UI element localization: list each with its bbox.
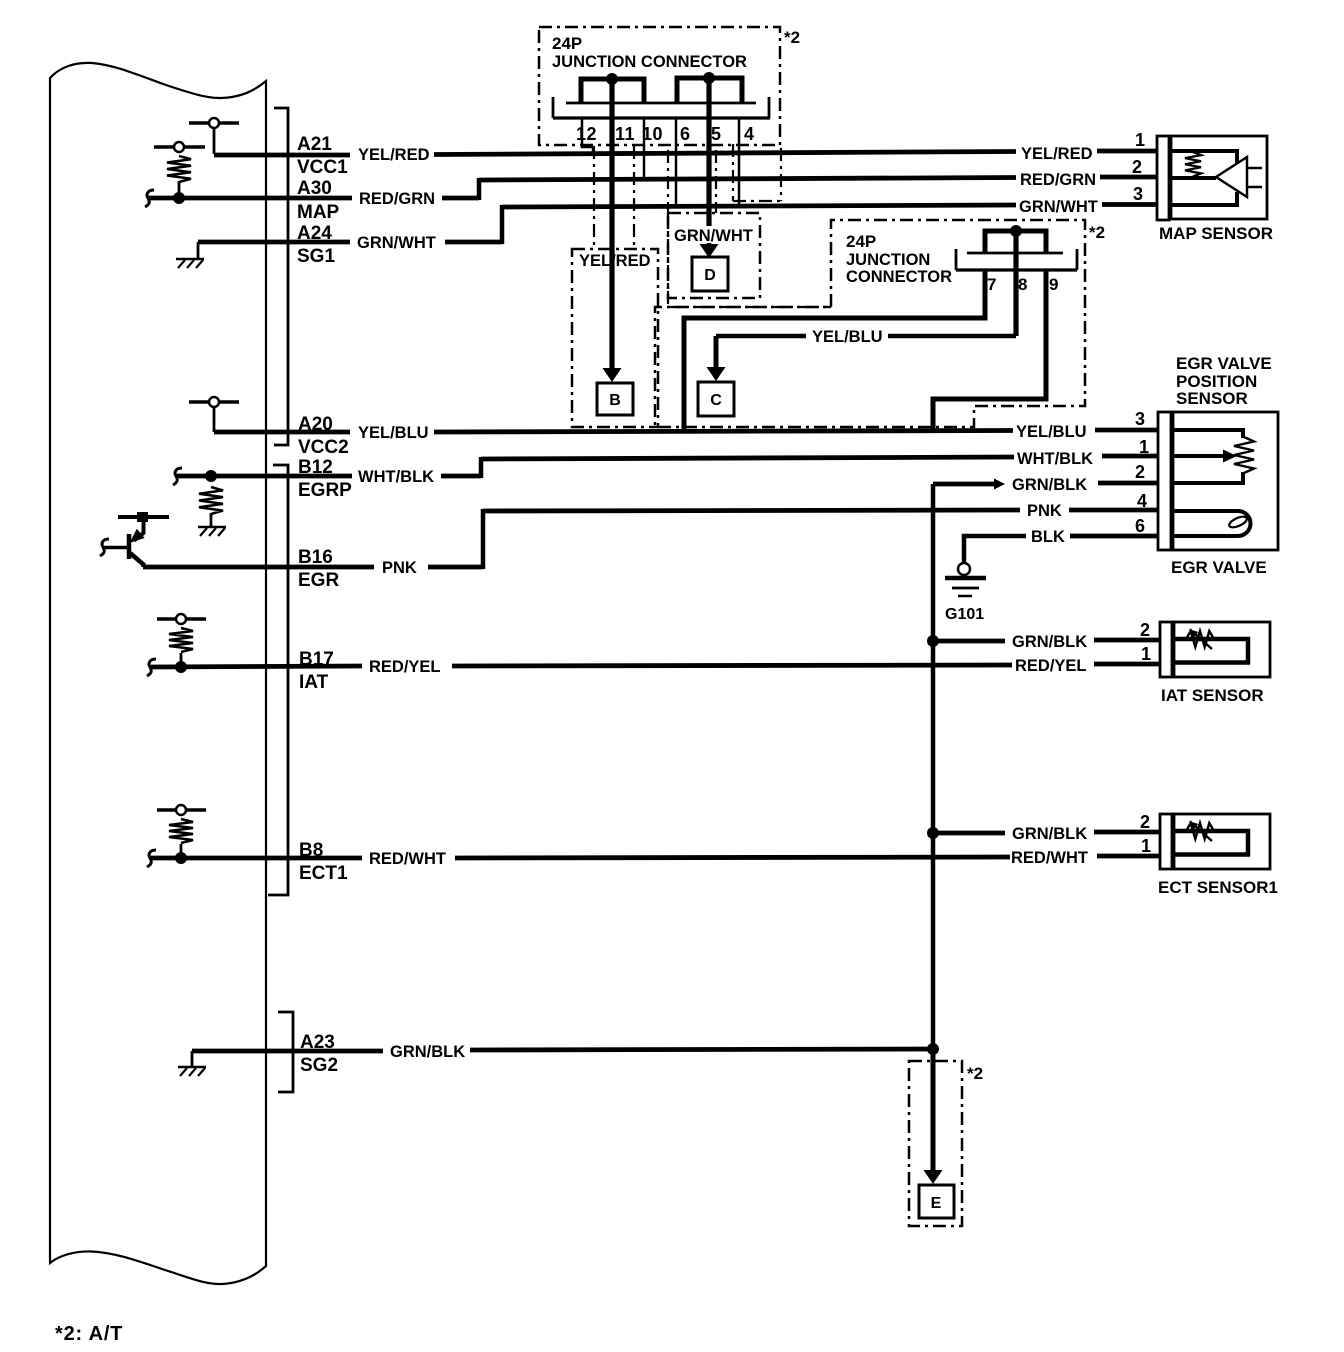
wire resistor to B8 node (180, 844, 183, 858)
harness channel line (pin 4 right) (780, 148, 782, 201)
VCC2 pull-up open circle (209, 397, 219, 407)
svg-text:YEL/RED: YEL/RED (1021, 145, 1093, 163)
svg-text:*2: *2 (1089, 223, 1105, 242)
harness channel line (pin 4 left) (732, 144, 734, 201)
node staple 1 dot (pin 11) (606, 73, 618, 85)
connector 2 body outer bar (956, 268, 1077, 271)
MAP triangle stub lower (1247, 186, 1262, 189)
ECT internal wire and loop (1174, 831, 1248, 855)
svg-text:SG2: SG2 (300, 1055, 338, 1076)
svg-text:GRN/WHT: GRN/WHT (1019, 198, 1098, 216)
svg-text:RED/YEL: RED/YEL (369, 658, 441, 676)
harness channel line (pin 6 left) (667, 150, 669, 213)
transistor Q1 base bar (127, 534, 132, 559)
connector E box (919, 1185, 954, 1218)
B8 wire left hook (147, 850, 156, 867)
svg-text:6: 6 (680, 124, 690, 144)
svg-text:3: 3 (1133, 184, 1143, 204)
svg-text:2: 2 (1132, 157, 1142, 177)
MAP sensor box (1171, 136, 1267, 219)
svg-text:EGR VALVE: EGR VALVE (1171, 558, 1267, 577)
wire pin 11 lead (YEL/RED branch to B) (609, 79, 614, 369)
harness channel line (pin 4 bottom) (733, 200, 781, 202)
svg-text:GRN/BLK: GRN/BLK (1012, 633, 1087, 651)
wire RED/WHT to ECT pin 1 (1097, 854, 1161, 859)
svg-text:EGRP: EGRP (298, 480, 352, 501)
arrow into D (707, 243, 712, 247)
svg-text:1: 1 (1135, 130, 1145, 150)
svg-text:A21: A21 (297, 134, 332, 155)
ECT thermistor arrow (1194, 825, 1212, 841)
svg-text:2: 2 (1135, 462, 1145, 482)
transistor Q1 emitter node square dot (137, 512, 148, 522)
resistor R-B17 (IAT) (169, 628, 193, 652)
wire BLK to EGR pin 6 (1070, 534, 1160, 539)
24P junction connector 1 dash-dot box (539, 27, 780, 145)
svg-text:E: E (931, 1195, 942, 1212)
wire YEL/BLU to EGR pin 3 (1095, 428, 1160, 433)
wire pin 8 lead (YEL/BLU to C) (1013, 231, 1018, 336)
wire RED/GRN to MAP pin 2 (1100, 175, 1159, 180)
VCC2 pull-up terminal bar (189, 400, 239, 403)
arrow into E (924, 1170, 943, 1184)
wire YEL/RED to MAP pin 1 (1097, 149, 1159, 154)
svg-text:RED/WHT: RED/WHT (1011, 849, 1088, 867)
svg-text:8: 8 (1018, 275, 1027, 294)
IAT thermistor arrow (1194, 633, 1212, 649)
wire RED/GRN upper segment (479, 178, 1016, 181)
ground SG1 (A24) (176, 258, 204, 261)
connector 1 body right end (768, 97, 771, 118)
wire GRN/WHT upper segment (502, 205, 1016, 207)
svg-text:24P: 24P (552, 34, 582, 53)
ground G101 mid bar (952, 587, 979, 590)
IAT internal wire and loop (1174, 639, 1248, 663)
EGR pot wiper arrow (1223, 450, 1237, 463)
wire WHT/BLK mid segment (441, 474, 481, 479)
IAT sensor box (1174, 622, 1270, 677)
connector 1 body outer bar (553, 116, 770, 119)
svg-text:PNK: PNK (382, 559, 417, 577)
svg-text:YEL/BLU: YEL/BLU (812, 328, 883, 346)
wire GRN/BLK to ECT pin 2 (1094, 830, 1161, 835)
transistor Q1 collector lead (130, 553, 144, 567)
EGR sensor box (1173, 412, 1278, 550)
wire PNK to EGR pin 4 (1069, 508, 1160, 513)
svg-text:GRN/BLK: GRN/BLK (1012, 825, 1087, 843)
svg-text:EGR: EGR (298, 570, 339, 591)
svg-text:EGR VALVE: EGR VALVE (1176, 354, 1272, 373)
VCC1 pull-up open circle (209, 118, 219, 128)
MAP internal pin3 line (1171, 192, 1237, 205)
B8 terminal bar (157, 808, 206, 811)
wire GRN/BLK to IAT pin 2 (1094, 638, 1161, 643)
svg-text:MAP SENSOR: MAP SENSOR (1159, 224, 1273, 243)
connector C box (698, 382, 734, 416)
connector 2 body inner bar (967, 252, 1063, 255)
24P junction connector 2 dash-dot outline (655, 220, 1085, 427)
wire GRN/BLK EGR segment with arrow (933, 482, 996, 487)
wire YEL/BLU branch right of label (888, 334, 1016, 339)
EGR pot wiper (pin 1) (1173, 454, 1224, 458)
svg-text:SG1: SG1 (297, 246, 335, 267)
resistor R-EGR potentiometer (1234, 437, 1254, 473)
ground G101 top bar (945, 576, 986, 581)
wire VCC2 drop to A20 (213, 407, 216, 432)
EGR pot top line (pin 3) (1173, 430, 1243, 438)
svg-text:7: 7 (987, 275, 996, 294)
wire YEL/BLU mid segment (434, 431, 1013, 433)
svg-text:6: 6 (1135, 516, 1145, 536)
svg-text:GRN/WHT: GRN/WHT (674, 227, 753, 245)
resistor R-MAP (1185, 152, 1201, 177)
node staple 2 dot (pin 5) (703, 72, 715, 84)
ground G101 circle (958, 563, 970, 575)
wire pin 4 lead to GRN/WHT (738, 118, 741, 207)
connector B box (597, 383, 633, 415)
connector 2 body right end (1076, 249, 1079, 270)
node A30 junction dot (173, 192, 185, 204)
ground G101 low bar (958, 595, 972, 598)
wire B16 PNK left segment (143, 565, 374, 570)
svg-text:JUNCTION: JUNCTION (846, 251, 930, 269)
wire YEL/RED mid segment (434, 152, 1016, 155)
connector 2 body left end (955, 249, 958, 270)
svg-text:1: 1 (1141, 644, 1151, 664)
wire GRN/BLK to trunk junction (470, 1049, 935, 1050)
svg-text:WHT/BLK: WHT/BLK (358, 468, 434, 486)
transistor Q1 emitter terminal bar (118, 515, 169, 519)
svg-text:VCC2: VCC2 (298, 437, 349, 458)
wire GRN/WHT riser (500, 205, 505, 244)
connector 1 bridge staple pins 12-10 (581, 79, 644, 104)
wire GRN/BLK vertical trunk (931, 484, 936, 1049)
VCC1 pull-up terminal bar (189, 121, 239, 124)
wire pin 5 lead (GRN/WHT branch to D) (706, 78, 711, 226)
transistor Q1 base lead (104, 546, 127, 550)
wire A30 RED/GRN left segment (149, 196, 352, 201)
wire RED/WHT mid segment (455, 857, 1010, 858)
svg-text:BLK: BLK (1031, 528, 1065, 546)
MAP sensor connector bar (1157, 136, 1169, 220)
node B12 junction dot (205, 470, 217, 482)
harness channel line (pin 11 left) (593, 146, 595, 249)
wire WHT/BLK upper segment (481, 457, 1014, 459)
resistor R-B12 (EGRP) (199, 487, 223, 514)
wire GRN/BLK IAT segment (933, 639, 1005, 644)
harness link line (C channel top) (667, 213, 669, 307)
wire RED/YEL mid segment (452, 665, 1012, 666)
ECU wavy band (left page-break band) (50, 63, 266, 1284)
wire GRN/WHT to MAP pin 3 (1102, 202, 1159, 207)
transistor Q1 emitter arrow (PNP) (130, 529, 145, 543)
wire GRN/WHT mid segment (445, 240, 502, 245)
svg-text:2: 2 (1140, 812, 1150, 832)
svg-text:*2: *2 (967, 1064, 983, 1083)
svg-text:24P: 24P (846, 232, 876, 251)
B17 terminal bar (157, 617, 206, 620)
arrow into C (707, 367, 726, 381)
MAP triangle stub upper (1247, 167, 1262, 170)
A30 terminal bar (154, 145, 205, 148)
wire RED/YEL to IAT pin 1 (1094, 662, 1161, 667)
wire resistor to B17 node (180, 653, 183, 667)
ECU connector bracket A23 (278, 1012, 293, 1092)
svg-text:4: 4 (1137, 491, 1147, 511)
svg-text:2: 2 (1140, 620, 1150, 640)
harness channel line (pin 11 right) (633, 146, 635, 249)
node trunk-ECT junction dot (927, 827, 939, 839)
EGR sensor connector bar (1158, 412, 1171, 550)
svg-text:*2: *2 (784, 28, 800, 47)
svg-text:ECT1: ECT1 (299, 863, 348, 884)
svg-text:12: 12 (576, 124, 597, 144)
svg-text:GRN/BLK: GRN/BLK (1012, 476, 1087, 494)
svg-text:G101: G101 (945, 606, 984, 623)
wire A21 YEL/RED left segment (214, 153, 350, 158)
svg-text:ECT SENSOR1: ECT SENSOR1 (1158, 878, 1278, 897)
op-amp triangle (MAP) (1216, 157, 1247, 197)
wire WHT/BLK to EGR pin 1 (1102, 454, 1160, 459)
MAP internal pin2 line (1171, 176, 1216, 180)
arrow GRN/BLK EGR (994, 479, 1005, 490)
GRN/WHT branch dash-dot box (668, 213, 760, 298)
svg-text:JUNCTION CONNECTOR: JUNCTION CONNECTOR (552, 53, 747, 71)
A30 wire left hook (145, 190, 154, 207)
EGR solenoid loop (pins 4-6) (1173, 511, 1251, 536)
wire YEL/BLU branch left of label (716, 334, 806, 339)
wire pin 6 lead to GRN/WHT (675, 118, 678, 207)
B17 terminal open circle (176, 614, 186, 624)
wire B12 WHT/BLK left segment (177, 474, 352, 479)
svg-text:IAT: IAT (299, 672, 329, 693)
wire A20 YEL/BLU left segment (214, 430, 350, 435)
wire PNK upper segment (483, 510, 1020, 511)
resistor R-B8 (ECT) (169, 819, 193, 843)
wire A23 ground drop (191, 1051, 194, 1067)
node B8 junction dot (175, 852, 187, 864)
ECT sensor box (1174, 814, 1270, 869)
EGR solenoid ellipse (1228, 514, 1249, 529)
wire pin 7 lead (684, 270, 985, 430)
svg-text:5: 5 (711, 124, 721, 144)
connector 1 body inner bar (566, 102, 756, 105)
svg-text:RED/YEL: RED/YEL (1015, 657, 1087, 675)
connector 2 bridge staple pins 7-9 (985, 231, 1046, 253)
node trunk-A23 junction dot (927, 1043, 939, 1055)
svg-text:VCC1: VCC1 (297, 157, 348, 178)
wire resistor to A30 node (178, 181, 181, 198)
wire RED/GRN mid segment (442, 196, 479, 201)
svg-text:B: B (609, 392, 621, 409)
harness channel line (pin 5 right) (715, 150, 717, 213)
wire C arrow drop (714, 336, 719, 369)
ECU connector bracket A (pins A21/A30/A24/A20) (274, 108, 288, 445)
MAP internal pin1 line (1171, 151, 1237, 163)
connector D box (692, 257, 728, 291)
wire WHT/BLK riser (479, 457, 484, 478)
transistor Q1 base lead hook (100, 539, 109, 556)
wire RED/GRN riser (477, 178, 482, 200)
node B17 junction dot (175, 661, 187, 673)
wire resistor to ground B12 (210, 513, 213, 527)
svg-text:IAT SENSOR: IAT SENSOR (1161, 686, 1264, 705)
svg-text:YEL/BLU: YEL/BLU (358, 424, 429, 442)
svg-text:RED/GRN: RED/GRN (1020, 171, 1096, 189)
svg-text:WHT/BLK: WHT/BLK (1017, 450, 1093, 468)
svg-text:11: 11 (615, 124, 635, 144)
resistor R-A30 (MAP input) (167, 156, 191, 182)
ground SG2 (A23) (178, 1066, 206, 1069)
svg-text:SENSOR: SENSOR (1176, 389, 1248, 408)
A30 terminal open circle (174, 142, 184, 152)
svg-text:3: 3 (1135, 409, 1145, 429)
wire PNK riser (481, 509, 486, 569)
svg-text:1: 1 (1141, 836, 1151, 856)
wire GRN/BLK to EGR pin 2 (1098, 481, 1160, 486)
svg-text:GRN/BLK: GRN/BLK (390, 1043, 465, 1061)
wire A24 GRN/WHT left segment (198, 240, 350, 245)
svg-text:4: 4 (744, 124, 754, 144)
node trunk-IAT junction dot (927, 635, 939, 647)
wire pin 9 lead (933, 270, 1046, 430)
B17 wire left hook (147, 659, 156, 676)
arrow into B (603, 368, 622, 382)
svg-text:C: C (710, 392, 722, 409)
connector 1 bridge staple pins 6-4 (677, 78, 742, 104)
svg-text:CONNECTOR: CONNECTOR (846, 268, 952, 286)
ECU connector bracket B (pins B12/B16/B17/B8) (268, 465, 288, 895)
EGR pot bottom line (pin 2) (1173, 472, 1243, 483)
ECT sensor connector bar (1160, 814, 1172, 869)
wire A23 GRN/BLK left segment (192, 1049, 383, 1054)
IAT sensor connector bar (1160, 622, 1172, 677)
resistor R-ECT thermistor (1186, 823, 1214, 839)
wire pin 12 lead to YEL/RED (582, 118, 593, 154)
harness link line (C channel horizontal) (668, 306, 831, 308)
svg-text:D: D (704, 267, 716, 284)
wire B17 RED/YEL left segment (151, 666, 362, 667)
svg-text:YEL/RED: YEL/RED (579, 252, 651, 270)
B8 terminal open circle (176, 805, 186, 815)
wire pin 10 lead to RED/GRN (643, 118, 646, 180)
svg-text:9: 9 (1049, 275, 1058, 294)
wire BLK from ground riser (964, 536, 1026, 562)
transistor Q1 emitter lead (134, 520, 144, 541)
svg-text:PNK: PNK (1027, 502, 1062, 520)
wire A24 ground drop (197, 242, 200, 259)
ground (B12) (198, 526, 226, 529)
svg-text:*2: A/T: *2: A/T (55, 1323, 123, 1345)
svg-text:1: 1 (1139, 437, 1149, 457)
wire VCC1 drop to A21 (213, 128, 216, 154)
connector 1 body left end (552, 97, 555, 118)
svg-text:GRN/WHT: GRN/WHT (357, 234, 436, 252)
YEL/RED branch dash-dot box (572, 249, 658, 427)
wire PNK mid segment (428, 565, 483, 570)
wire GRN/BLK ECT segment (933, 831, 1005, 836)
svg-text:YEL/RED: YEL/RED (358, 146, 430, 164)
svg-text:RED/WHT: RED/WHT (369, 850, 446, 868)
node staple dot (pin 8) (1010, 225, 1022, 237)
wire GRN/BLK drop to E (931, 1049, 936, 1170)
svg-text:MAP: MAP (297, 202, 340, 223)
wire B8 RED/WHT left segment (151, 856, 362, 861)
resistor R-IAT thermistor (1186, 631, 1214, 647)
E branch dash-dot box (909, 1061, 962, 1226)
svg-text:RED/GRN: RED/GRN (359, 190, 435, 208)
svg-text:YEL/BLU: YEL/BLU (1016, 423, 1087, 441)
B12 wire left hook (173, 468, 182, 485)
